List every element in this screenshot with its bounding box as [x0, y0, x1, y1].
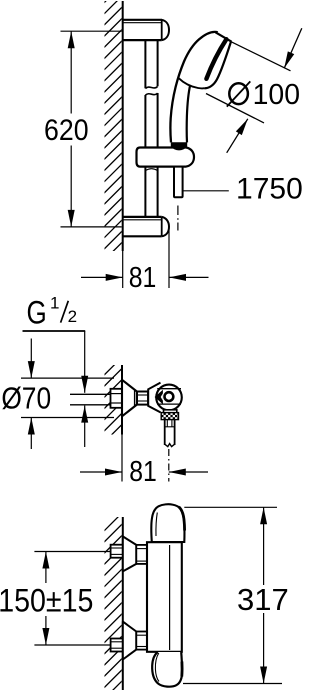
valve head chord lines: [157, 388, 181, 390]
dimension 81 (top): right arrow: [169, 276, 209, 278]
bottom union nut: [136, 632, 147, 650]
label Ø100 (composed diameter symbol + digits): [229, 83, 248, 104]
dimension 81 (middle): left arrow at wall: [80, 471, 122, 473]
wall line (bottom drawing): [122, 517, 124, 690]
rail top bracket: [123, 20, 169, 40]
hose connector below slider: [174, 167, 183, 198]
G 1/2 underline: [23, 330, 86, 332]
svg-text:1: 1: [50, 294, 59, 313]
hex nut behind wall: [111, 389, 123, 408]
svg-text:100: 100: [253, 79, 300, 111]
svg-text:317: 317: [237, 582, 289, 617]
dimension 317 line with arrows: [263, 507, 265, 585]
head/handle junction line: [178, 78, 204, 88]
valve body round head: [156, 385, 182, 411]
hand shower back/left outline: [170, 32, 217, 143]
top supply pipe centerline / 150 extension: [34, 551, 110, 553]
svg-text:G: G: [27, 295, 47, 331]
bottom escutcheon cone: [123, 622, 137, 660]
dimension 150±15 arrows: [45, 552, 47, 584]
svg-text:81: 81: [129, 455, 157, 487]
G 1/2 opposing arrow up to pipe bottom: [84, 406, 86, 447]
body inner shading line: [169, 545, 171, 650]
hand shower spray face (dark strip): [206, 39, 226, 79]
dimension 81 (middle): right arrow: [169, 471, 208, 473]
svg-text:1750: 1750: [236, 172, 303, 205]
dimension Ø100 upper arrow: [284, 28, 302, 68]
bottom supply pipe centerline / 150 extension: [34, 644, 110, 646]
escutcheon rim line: [134, 390, 136, 406]
cap dark right edge: [180, 662, 183, 677]
svg-text:150±15: 150±15: [0, 583, 93, 619]
leader line to 1750: [183, 190, 229, 192]
handle boss ring: [165, 392, 174, 401]
bottom hex nut behind wall: [111, 639, 123, 652]
svg-text:81: 81: [129, 261, 157, 293]
valve body left piece: [148, 383, 160, 413]
wall hatching (top drawing): [104, 0, 123, 272]
hose coupling: [165, 420, 175, 447]
dimension 620 extension line top: [61, 30, 122, 32]
hand shower face front edge: [204, 42, 231, 89]
dimension 620 line with arrows: [70, 31, 72, 113]
hand shower head fill: [176, 32, 231, 88]
dimension Ø70 extension line top: [21, 377, 114, 379]
dimension 620 extension line bottom: [61, 226, 122, 228]
dimension 81 (top): left arrow at wall: [81, 276, 123, 278]
dark wedge marker: [155, 390, 163, 405]
dimension 317 extension line top: [184, 506, 277, 508]
wall extension line down to 81 dimension: [122, 251, 124, 288]
top hex nut behind wall: [111, 545, 123, 558]
knurled hose nut: [161, 413, 178, 420]
dimension 317 extension line bottom: [183, 683, 282, 685]
rail tube shoulder below slider: [145, 169, 157, 171]
handle end dark cap: [171, 142, 187, 150]
wall hatching (bottom drawing): [104, 512, 123, 690]
escutcheon cone: [122, 380, 137, 417]
wall line (middle drawing): [121, 365, 123, 435]
slider holder on rail: [137, 148, 195, 167]
rail tube: [145, 40, 157, 217]
rail bottom bracket: [123, 217, 169, 236]
wall extension line down to 81 dimension: [121, 435, 123, 482]
hand shower handle fill: [170, 82, 190, 142]
mixer body: [147, 542, 182, 652]
dimension Ø100 extension line (bottom edge of face): [206, 94, 264, 123]
head rim thick segment: [216, 32, 232, 41]
dimension Ø70 upper arrow: [30, 339, 32, 379]
rail tube break symbol: [145, 87, 157, 89]
dimension Ø70 extension line bottom: [21, 417, 114, 419]
svg-text:2: 2: [68, 307, 77, 326]
dimension Ø100 lower arrow: [227, 119, 248, 153]
wall hatching (middle drawing): [104, 356, 123, 453]
dimension Ø100 extension line (top edge of head): [230, 41, 291, 71]
thermostat top knob: [151, 504, 184, 542]
top union nut: [136, 545, 147, 564]
G 1/2 leader arrow down to pipe: [84, 331, 86, 393]
dimension Ø70 lower arrow: [30, 418, 32, 450]
wall line (top drawing): [122, 1, 124, 251]
hand shower handle right edge: [187, 85, 191, 142]
dimension 81 (top): right extension line: [168, 228, 170, 288]
outlet neck: [164, 410, 177, 413]
cap inner arc: [155, 653, 159, 682]
knob dark right edge: [179, 507, 185, 531]
union nut: [137, 392, 148, 405]
top escutcheon cone: [123, 536, 137, 571]
svg-text:Ø70: Ø70: [1, 381, 51, 415]
bottom outlet cap: [152, 652, 182, 687]
svg-text:620: 620: [44, 114, 89, 148]
hose dash-dot centerline (middle): [168, 449, 170, 482]
supply pipe behind wall: [70, 393, 111, 395]
hose dash-dot centerline: [177, 206, 179, 231]
